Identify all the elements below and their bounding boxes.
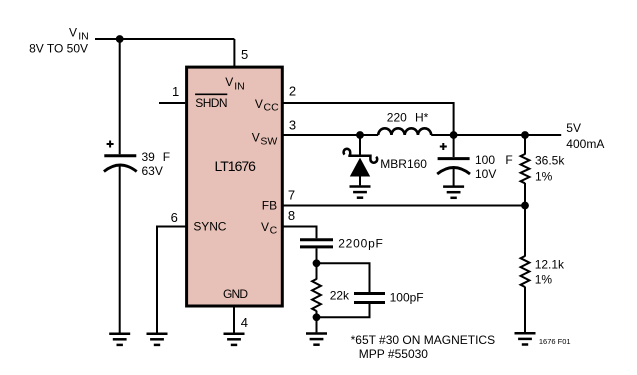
IC label SHDN with overline: [195, 94, 227, 110]
svg-text:100: 100: [475, 153, 495, 167]
IC label VC: [261, 220, 278, 237]
resistor R3 22k: [312, 263, 350, 317]
wire C3 to node: [316, 248, 318, 263]
resistor R2 12.1k: [521, 206, 565, 333]
wire pin4 GND to ground: [233, 306, 235, 333]
IC label VIN: [225, 75, 244, 92]
inductor L1 220uH: [378, 111, 431, 135]
svg-text:6: 6: [171, 210, 178, 225]
svg-text:FB: FB: [262, 198, 277, 212]
ground G7 (R2): [515, 333, 536, 344]
svg-text:V: V: [261, 220, 269, 234]
svg-text:SHDN: SHDN: [195, 96, 227, 110]
wire from C1 down to ground: [119, 166, 121, 333]
svg-text:63V: 63V: [142, 164, 163, 178]
node VIN label: [29, 25, 89, 55]
svg-text:SYNC: SYNC: [193, 220, 226, 234]
wire pin1 SHDN stub: [159, 102, 185, 104]
ground G2 (SYNC): [147, 334, 168, 345]
svg-text:H*: H*: [415, 111, 429, 125]
svg-text:5V: 5V: [566, 121, 581, 135]
ground G6 (C2): [443, 187, 464, 198]
node 5V output label: [566, 121, 604, 151]
svg-text:12.1k: 12.1k: [535, 258, 565, 272]
ground G1 (C1): [109, 334, 130, 345]
IC label VSW: [252, 131, 278, 148]
svg-text:V: V: [252, 131, 260, 145]
wire pin6 SYNC to ground: [157, 227, 186, 333]
ground G4 (comp): [306, 334, 327, 345]
svg-text:GND: GND: [223, 287, 248, 301]
svg-text:39: 39: [142, 150, 156, 164]
op-amp U1 LT1676 regulator body: [187, 67, 283, 306]
svg-text:V: V: [225, 75, 233, 89]
svg-text:2: 2: [289, 84, 296, 99]
wire comp loop top: [317, 263, 370, 292]
node switch junction dot: [356, 131, 364, 139]
svg-text:V: V: [69, 25, 77, 39]
wire VIN top rail: [95, 38, 234, 40]
svg-text:*65T #30 ON MAGNETICS: *65T #30 ON MAGNETICS: [351, 333, 496, 347]
wire comp node to ground: [316, 317, 318, 332]
node FB junction dot: [521, 202, 529, 210]
svg-text:F: F: [163, 150, 170, 164]
diode D1 MBR160: [344, 135, 428, 185]
node comp bottom dot: [313, 313, 321, 321]
resistor R1 36.5k: [521, 135, 566, 206]
svg-text:8V TO 50V: 8V TO 50V: [29, 41, 88, 55]
svg-text:1%: 1%: [535, 169, 553, 183]
svg-text:4: 4: [241, 315, 248, 330]
svg-text:1676 F01: 1676 F01: [539, 337, 571, 346]
wire pin8 VC to compensation: [283, 227, 317, 239]
svg-text:400mA: 400mA: [566, 137, 604, 151]
note inductor footnote: [351, 333, 496, 361]
svg-text:C: C: [270, 225, 278, 237]
IC label VCC: [255, 97, 279, 114]
svg-text:MBR160: MBR160: [380, 157, 427, 171]
svg-text:MPP #55030: MPP #55030: [359, 347, 428, 361]
svg-text:10V: 10V: [475, 167, 496, 181]
svg-text:1%: 1%: [535, 272, 553, 286]
svg-text:LT1676: LT1676: [215, 158, 257, 174]
svg-text:100pF: 100pF: [390, 290, 424, 304]
ground G3 (IC GND): [224, 334, 245, 345]
svg-text:7: 7: [288, 187, 295, 202]
svg-text:22k: 22k: [330, 289, 350, 303]
capacitor C2 100uF 10V: [437, 135, 513, 186]
capacitor C1 39uF 63V: [104, 141, 170, 179]
wire pin3 VSW to diode node: [283, 134, 378, 136]
capacitor C4 100pF: [354, 290, 424, 304]
svg-text:3: 3: [289, 117, 296, 132]
svg-text:2200pF: 2200pF: [338, 237, 384, 251]
node 5V output dot: [521, 131, 529, 139]
svg-text:SW: SW: [260, 135, 277, 147]
wire from VIN node down to C1: [119, 39, 121, 154]
svg-text:IN: IN: [234, 80, 245, 92]
junction dot at VIN node: [116, 35, 124, 43]
svg-text:CC: CC: [264, 102, 280, 114]
capacitor C3 2200pF: [300, 237, 384, 251]
wire inductor to output: [431, 134, 561, 136]
svg-text:5: 5: [241, 47, 248, 62]
wire pin7 FB to divider: [283, 205, 525, 207]
wire pin2 VCC to output node: [283, 103, 454, 135]
node comp top dot: [313, 259, 321, 267]
wire pin5 from top rail into IC: [233, 39, 235, 66]
svg-text:F: F: [505, 153, 512, 167]
svg-text:36.5k: 36.5k: [535, 153, 565, 167]
node output cap junction dot: [450, 131, 458, 139]
svg-text:220: 220: [387, 111, 407, 125]
wire comp loop bottom: [317, 304, 370, 317]
svg-text:V: V: [255, 97, 263, 111]
svg-text:8: 8: [288, 208, 295, 223]
ground G5 (diode): [350, 187, 371, 198]
svg-text:1: 1: [172, 84, 179, 99]
